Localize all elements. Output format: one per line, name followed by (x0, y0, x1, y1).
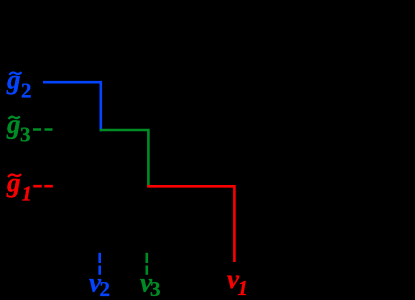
svg-text:2: 2 (100, 277, 111, 300)
svg-text:1: 1 (22, 182, 33, 206)
dashed tick at v3 (green) (146, 253, 149, 275)
svg-text:1: 1 (238, 276, 249, 300)
svg-text:g: g (6, 168, 21, 198)
label g1 tilde (8, 174, 21, 177)
dashed guide from g3 label (33, 128, 53, 131)
svg-text:3: 3 (150, 277, 161, 300)
label g3 tilde (8, 116, 19, 119)
step segment g2 (blue horizontal) (43, 82, 101, 131)
step segment g3 (green) (100, 130, 149, 188)
dashed guide from g1 label (33, 185, 53, 188)
svg-text:g: g (6, 109, 21, 139)
svg-text:2: 2 (21, 79, 32, 103)
svg-text:g: g (6, 65, 21, 95)
dashed tick at v2 (blue) (98, 253, 101, 275)
svg-text:3: 3 (20, 123, 31, 147)
label g2 tilde (9, 72, 21, 75)
step segment g1 (red) (147, 186, 234, 262)
